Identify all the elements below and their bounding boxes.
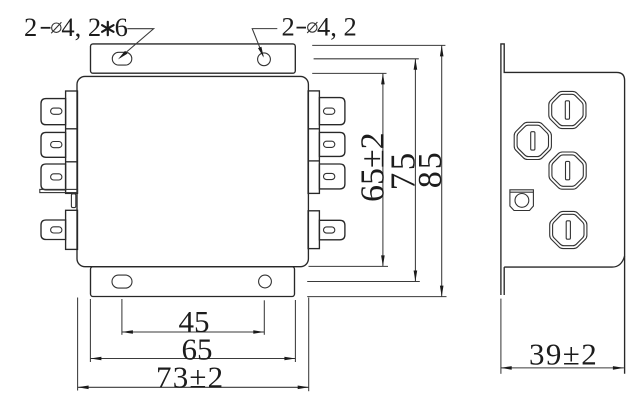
terminal O3 outer — [549, 152, 586, 189]
svg-text:4, 2: 4, 2 — [61, 12, 101, 42]
leader 2 arrow — [258, 47, 264, 58]
terminal O2 outer — [514, 122, 551, 159]
top mounting flange — [91, 44, 296, 73]
diameter symbol 1 — [52, 23, 61, 32]
extension line 85 top — [312, 44, 445, 46]
right strip divider 2 — [308, 160, 319, 162]
extension line 85 bottom — [307, 296, 446, 298]
right tab blade 1 — [319, 98, 345, 125]
svg-text:73±2: 73±2 — [156, 360, 224, 395]
svg-text:4, 2: 4, 2 — [317, 12, 357, 42]
side ground lug bar — [510, 191, 534, 193]
side view sheet thickness below bend — [503, 267, 505, 295]
left strip divider 1 — [66, 128, 78, 130]
left tab blade 1 — [41, 99, 66, 125]
extension line 65 top — [312, 72, 386, 74]
right tab blade 4 — [319, 220, 345, 240]
svg-text:39±2: 39±2 — [529, 337, 598, 372]
right terminal strip (lower) — [308, 211, 319, 249]
right terminal strip (upper) — [308, 91, 319, 193]
leader 1 — [120, 29, 154, 58]
side view left extension lower — [500, 299, 502, 374]
svg-text:85: 85 — [412, 150, 449, 188]
ground tab edge-on — [71, 194, 75, 208]
bottom flange round hole — [259, 275, 272, 288]
side ground lug circle — [515, 194, 529, 208]
terminal O4 slot — [566, 221, 570, 239]
top flange round hole — [258, 53, 271, 66]
right tab 1 hole — [324, 108, 335, 114]
dimension 45 — [122, 331, 264, 333]
svg-text:2: 2 — [282, 12, 295, 42]
right tab blade 3 — [319, 164, 345, 189]
filter body — [77, 76, 308, 266]
terminal O1 outer — [549, 91, 586, 128]
left tab 1 hole — [51, 108, 62, 114]
extension line 45 right — [263, 300, 265, 335]
extension line 75 bottom — [307, 281, 420, 283]
terminal O2 slot — [531, 132, 535, 150]
extension line 65 left — [89, 299, 91, 362]
side ground lug square — [510, 190, 534, 211]
left tab blade 3 — [41, 164, 66, 190]
top flange slot hole — [112, 52, 132, 65]
left terminal strip (lower) — [66, 210, 78, 249]
left tab 4 hole — [51, 227, 62, 233]
bottom mounting flange — [91, 267, 295, 297]
dimension 75 vertical — [414, 59, 416, 282]
terminal O1 slot — [565, 101, 569, 119]
right tab blade 2 — [319, 132, 345, 156]
right tab 2 hole — [324, 141, 335, 147]
right tab 3 hole — [324, 173, 335, 179]
left tab blade 4 — [41, 220, 66, 240]
side view bend line — [504, 256, 624, 267]
terminal O2 inner — [517, 125, 548, 156]
dimension 65 bottom — [90, 358, 295, 360]
terminal O3 inner — [552, 155, 583, 186]
dimension 65+-2 vertical — [382, 73, 384, 266]
left strip divider 2 — [66, 161, 78, 163]
left tab 2 hole — [51, 142, 62, 148]
right strip divider 1 — [308, 128, 319, 130]
terminal O4 outer — [550, 211, 587, 248]
dimension 85 vertical — [441, 45, 443, 296]
svg-text:2: 2 — [24, 12, 37, 42]
leader 1 arrow — [118, 51, 128, 60]
diameter symbol 2 — [308, 23, 317, 32]
terminal O4 inner — [553, 214, 584, 245]
extension line 73 right — [308, 298, 310, 392]
terminal O1 inner — [552, 94, 583, 125]
extension line 75 top — [314, 58, 419, 60]
ground plate — [40, 189, 78, 192]
svg-text:6: 6 — [115, 12, 128, 42]
dimension 39+-2 — [501, 367, 624, 369]
left tab 3 hole — [51, 174, 62, 180]
left terminal strip (upper) — [66, 91, 78, 193]
dimension 73+-2 — [78, 386, 309, 388]
extension line 73 left — [77, 298, 79, 391]
left tab blade 2 — [41, 132, 66, 157]
terminal O3 slot — [566, 161, 570, 179]
extension line 65 right — [294, 300, 296, 362]
bottom flange slot hole — [112, 275, 132, 288]
leader 2 — [252, 29, 277, 57]
extension line 65 bottom — [309, 265, 389, 267]
side view panel outline — [501, 44, 625, 374]
extension line 45 left — [121, 299, 123, 335]
right tab 4 hole — [324, 227, 335, 233]
